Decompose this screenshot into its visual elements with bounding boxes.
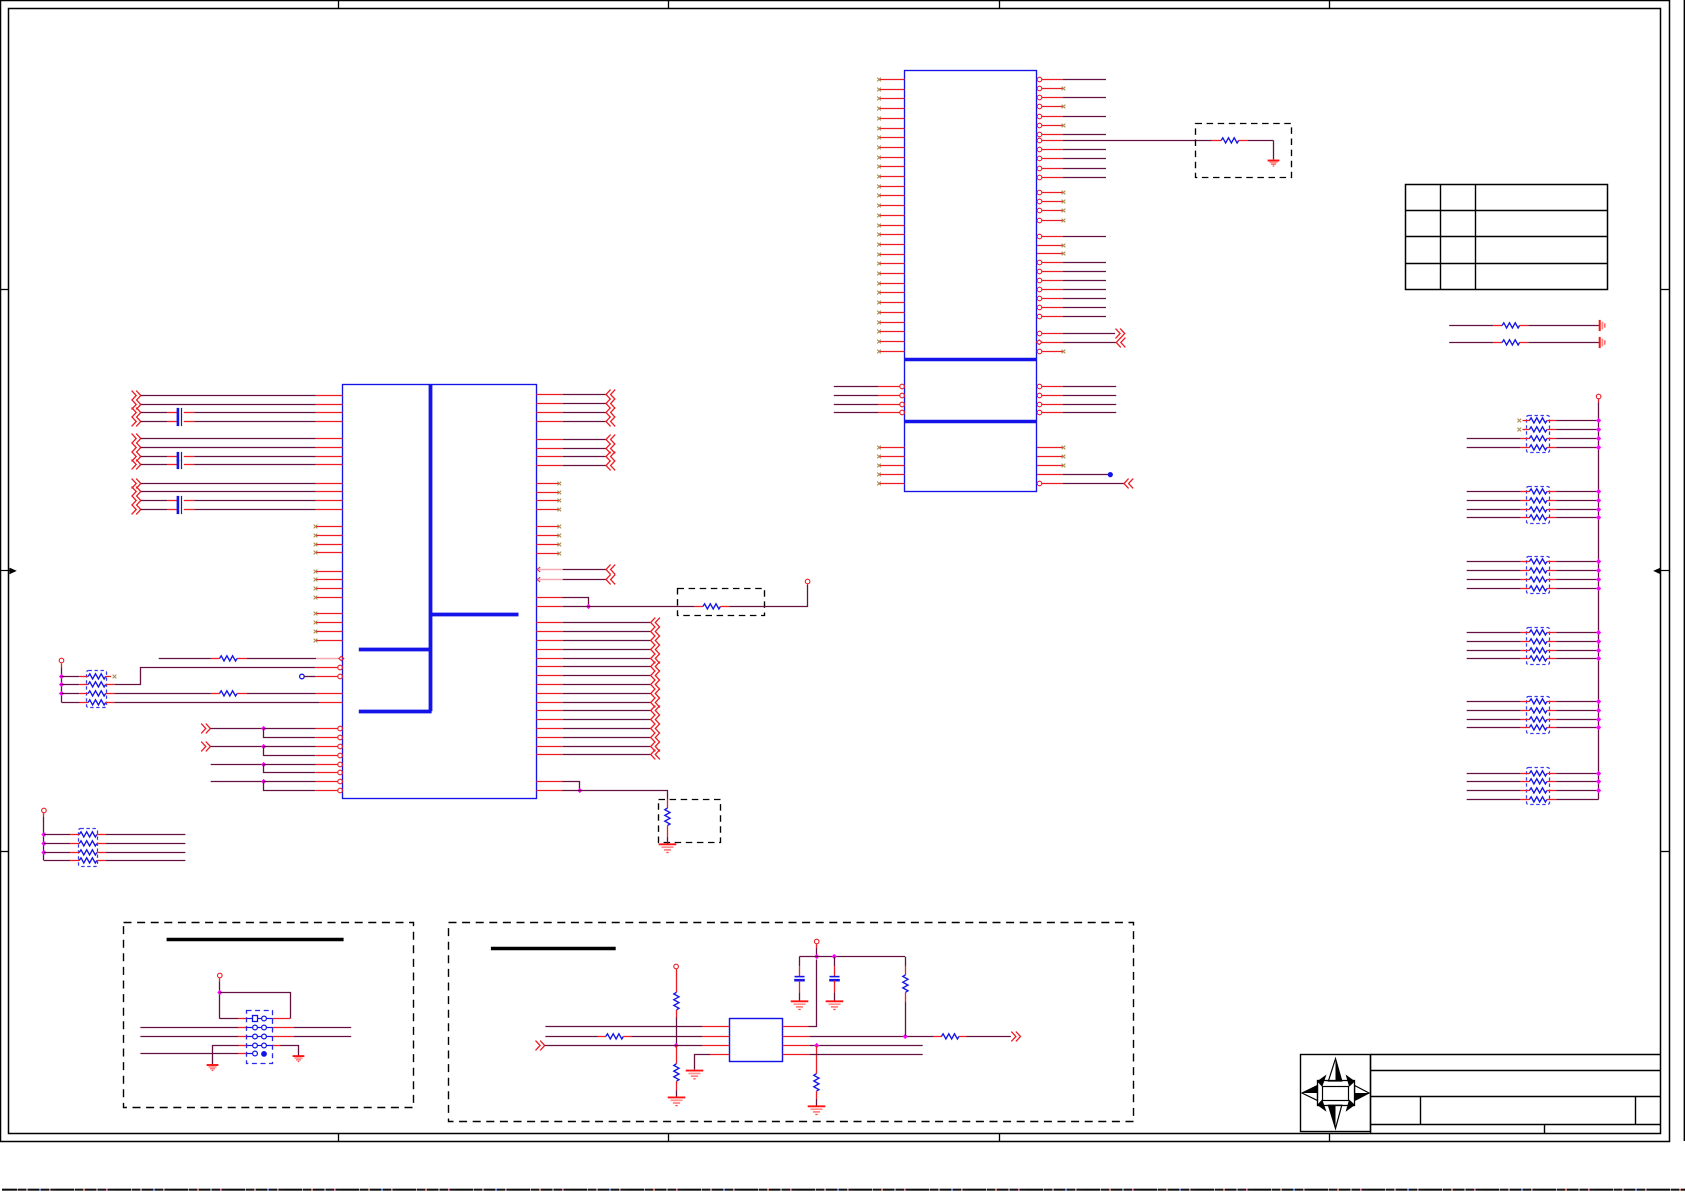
U2 right pin xyxy=(536,719,562,721)
RN2 resistor 2 lead xyxy=(1521,500,1530,502)
U1 lower-left pin 4 no-connect xyxy=(877,473,904,477)
wire xyxy=(106,843,186,845)
RN5 resistor 4 lead xyxy=(1521,727,1530,729)
U2 left pin xyxy=(316,395,343,397)
off-page connector xyxy=(606,565,615,575)
wire off-page xyxy=(563,728,651,730)
wire xyxy=(730,585,808,607)
off-page connector xyxy=(606,399,615,409)
wire xyxy=(810,1036,934,1038)
U2 right pin xyxy=(536,737,562,739)
U1 left pin 22 no-connect xyxy=(877,282,904,286)
wire xyxy=(632,1036,703,1038)
junction xyxy=(674,1043,679,1048)
wire xyxy=(1467,658,1521,660)
junction xyxy=(41,850,46,855)
wire xyxy=(264,764,316,766)
U2 left pin no-connect xyxy=(314,596,343,600)
lead xyxy=(1547,641,1556,643)
ground xyxy=(686,1071,704,1079)
off-page connector xyxy=(606,444,615,454)
U2 left pin xyxy=(316,753,343,758)
wire xyxy=(294,1036,351,1038)
power node flag xyxy=(805,579,810,584)
wire xyxy=(44,834,70,836)
off-page connector xyxy=(606,452,615,462)
U2 left pin xyxy=(316,500,343,502)
wire xyxy=(1556,641,1598,643)
off-page connector xyxy=(606,390,615,400)
U1 left pin 7 no-connect xyxy=(877,136,904,140)
wire xyxy=(1063,395,1117,397)
resistor R5 xyxy=(211,656,247,661)
junction xyxy=(1596,507,1601,512)
wire to ground xyxy=(695,1055,711,1070)
U1 left pin 24 no-connect xyxy=(877,301,904,305)
wire xyxy=(140,1027,238,1029)
wire xyxy=(1556,500,1598,502)
no-connect xyxy=(113,675,117,679)
wire xyxy=(210,746,263,748)
wire off-page xyxy=(563,569,606,571)
wire xyxy=(1467,500,1521,502)
junction xyxy=(586,604,591,609)
wire xyxy=(1063,168,1106,170)
U3 pin lead xyxy=(702,1036,729,1038)
wire xyxy=(1556,579,1598,581)
RN3 resistor 4 lead xyxy=(1521,588,1530,590)
U1 left pin 3 no-connect xyxy=(877,97,904,101)
U1 left pin 17 no-connect xyxy=(877,233,904,237)
junction xyxy=(1596,656,1601,661)
U2 left pin no-connect xyxy=(314,587,343,591)
wire xyxy=(264,728,316,730)
resistor RN5.4 xyxy=(1529,725,1547,730)
wire xyxy=(194,412,316,414)
wire off-page xyxy=(563,394,606,396)
off-page connector xyxy=(132,443,141,453)
dashed enclosure J1 section xyxy=(124,923,414,1108)
logo compass star xyxy=(1302,1059,1369,1129)
J1 pin 7 xyxy=(246,1043,261,1048)
U1 right pin xyxy=(1037,175,1063,180)
wire xyxy=(1467,561,1521,563)
ground xyxy=(826,1001,844,1009)
wire xyxy=(1556,781,1598,783)
junction xyxy=(1596,577,1601,582)
U2 left pin no-connect xyxy=(314,570,343,574)
wire off-page xyxy=(563,658,651,660)
RN5 resistor 1 lead xyxy=(1521,701,1530,703)
wire xyxy=(799,957,801,966)
off-page connector xyxy=(651,654,660,664)
wire xyxy=(247,693,316,695)
lead xyxy=(1547,570,1556,572)
wire xyxy=(834,386,878,388)
J1 pin 2 xyxy=(262,1016,273,1021)
wire xyxy=(62,676,80,678)
U1 right pin no-connect xyxy=(1037,104,1065,109)
power node flag xyxy=(59,658,64,667)
off-page connector xyxy=(651,750,660,760)
wire xyxy=(1556,491,1598,493)
lead xyxy=(1547,588,1556,590)
U1 left pin 28 no-connect xyxy=(877,340,904,344)
wire xyxy=(1063,79,1106,81)
wire off-page xyxy=(563,675,651,677)
wire jog up xyxy=(115,668,316,685)
resistor network RN4 dashed outline xyxy=(1527,628,1550,665)
junction xyxy=(1596,630,1601,635)
wire off-page xyxy=(563,622,651,624)
junction xyxy=(1596,427,1601,432)
U1 lower-right pin 4 xyxy=(1037,474,1063,476)
lead xyxy=(816,1091,818,1099)
lead xyxy=(273,1036,294,1038)
wire xyxy=(1063,280,1106,282)
U1 middle-right pin 1 xyxy=(1037,384,1063,389)
U2 left pin xyxy=(316,438,343,440)
wire xyxy=(1556,658,1598,660)
U2 right pin xyxy=(536,403,562,405)
U1 right pin xyxy=(1037,95,1063,100)
wire off-page xyxy=(563,579,606,581)
U2 left pin xyxy=(316,762,343,767)
U2 left pin no-connect xyxy=(314,630,343,634)
wire xyxy=(264,746,316,748)
U2 right pin no-connect xyxy=(536,491,561,495)
RN2 resistor 4 lead xyxy=(1521,517,1530,519)
zone tick bottom 3 xyxy=(999,1133,1001,1141)
resistor R8 lead xyxy=(676,972,678,992)
U2 left pin xyxy=(316,665,343,670)
U1 right pin xyxy=(1037,260,1063,265)
U1 left pin 18 no-connect xyxy=(877,243,904,247)
wire off-page xyxy=(563,666,651,668)
lead xyxy=(905,992,907,1002)
capacitor C8 lead xyxy=(834,966,836,977)
U2 right pin arrow xyxy=(537,567,563,572)
U1 left pin 2 no-connect xyxy=(877,88,904,92)
off-page connector xyxy=(651,645,660,655)
wire branch xyxy=(264,782,316,791)
wire xyxy=(220,1018,238,1020)
wire xyxy=(141,491,316,493)
off-page connector xyxy=(651,706,660,716)
off-page connector xyxy=(132,417,141,427)
bus line horizontal B xyxy=(359,648,431,652)
lead xyxy=(1547,781,1556,783)
U1 right pin no-connect xyxy=(1037,252,1065,256)
wire xyxy=(247,658,316,660)
wire xyxy=(141,412,167,414)
U1 right pin xyxy=(1037,314,1063,319)
resistor RN8.3 xyxy=(70,850,106,855)
U1 middle-left pin 4 xyxy=(878,410,904,415)
J1 pin 3 xyxy=(246,1025,261,1030)
U1 middle-left pin 3 xyxy=(878,402,904,407)
zone tick right 1 xyxy=(1661,289,1670,291)
wire off-page xyxy=(563,448,606,450)
U1 right pin diamond xyxy=(1037,340,1064,345)
U1 right pin xyxy=(1037,296,1063,301)
off-page connector xyxy=(536,1041,545,1051)
U1 left pin 6 no-connect xyxy=(877,127,904,131)
resistor network RN6 dashed outline xyxy=(1527,768,1550,805)
U2 left pin no-connect xyxy=(314,534,343,538)
capacitor C3 xyxy=(167,452,194,461)
resistor R11 xyxy=(934,1034,967,1039)
wire xyxy=(1063,149,1106,151)
off-page connector xyxy=(651,724,660,734)
wire branch xyxy=(264,747,316,756)
U2 right pin xyxy=(536,421,562,423)
wire xyxy=(1556,517,1598,519)
U2 left pin xyxy=(319,702,343,704)
revision table xyxy=(1405,184,1607,289)
wire xyxy=(264,781,316,783)
U1 left pin 19 no-connect xyxy=(877,253,904,257)
RN1 resistor 1 no-connect side xyxy=(1517,419,1529,423)
ground xyxy=(207,1065,219,1070)
U2 left pin xyxy=(316,509,343,511)
U2 right pin no-connect xyxy=(536,482,561,486)
bus line horizontal C xyxy=(359,710,432,714)
wire xyxy=(1063,97,1106,99)
off-page connector xyxy=(132,479,141,489)
U2 left pin no-connect xyxy=(314,578,343,582)
off-page connector xyxy=(651,742,660,752)
wire xyxy=(1467,719,1521,721)
resistor RN2.3 xyxy=(1529,507,1547,512)
resistor R12 xyxy=(814,1074,819,1092)
resistor RN1.1 xyxy=(1529,418,1547,423)
junction xyxy=(1596,779,1601,784)
junction xyxy=(1596,648,1601,653)
U2 right pin xyxy=(536,649,562,651)
wire xyxy=(1467,438,1521,440)
U1 left pin 21 no-connect xyxy=(877,272,904,276)
wire off-page xyxy=(1063,333,1115,335)
wire off-page xyxy=(563,746,651,748)
resistor R4 xyxy=(211,691,247,696)
lead xyxy=(834,981,836,993)
wire xyxy=(1063,289,1106,291)
U2 left pin xyxy=(316,447,343,449)
off-page connector xyxy=(606,461,615,471)
resistor RN6.4 xyxy=(1529,797,1547,802)
resistor RN3.2 xyxy=(1529,568,1547,573)
off-page connector xyxy=(606,575,615,585)
wire off-page xyxy=(563,465,606,467)
U2 left pin no-connect xyxy=(314,543,343,547)
lead xyxy=(799,981,801,993)
resistor R2 xyxy=(1493,323,1528,328)
wire xyxy=(1528,342,1599,344)
U2 right pin xyxy=(536,728,562,730)
wire xyxy=(1467,579,1521,581)
wire off-page xyxy=(563,631,651,633)
U1 middle-right pin 4 xyxy=(1037,410,1063,415)
wire xyxy=(1467,701,1521,703)
wire xyxy=(141,438,316,440)
wire xyxy=(141,404,316,406)
IC U2 body xyxy=(343,385,537,799)
U3 pin lead xyxy=(702,1045,729,1047)
wire xyxy=(905,1002,907,1036)
RN3 resistor 3 lead xyxy=(1521,579,1530,581)
U1 right pin xyxy=(1037,114,1063,119)
wire xyxy=(1063,307,1106,309)
junction xyxy=(261,726,266,731)
wire xyxy=(141,483,316,485)
wire xyxy=(141,509,167,511)
junction xyxy=(1596,436,1601,441)
U1 lower-left pin 1 no-connect xyxy=(877,446,904,450)
junction xyxy=(1596,708,1601,713)
lead xyxy=(273,1027,294,1029)
lead xyxy=(1547,632,1556,634)
off-page connector xyxy=(606,417,615,427)
U2 right pin xyxy=(536,754,562,756)
capacitor C5 xyxy=(167,496,194,505)
U1 middle-right pin 2 xyxy=(1037,393,1063,398)
lead xyxy=(1547,719,1556,721)
U1 left pin 4 no-connect xyxy=(877,107,904,111)
resistor RN8.4 xyxy=(70,858,106,863)
wire off-page xyxy=(563,640,651,642)
wire xyxy=(676,1018,678,1046)
U1 left pin 26 no-connect xyxy=(877,321,904,325)
wire xyxy=(545,1045,703,1047)
U2 right pin xyxy=(536,684,562,686)
U2 right pin xyxy=(536,710,562,712)
U1 right pin no-connect xyxy=(1037,86,1065,91)
wire xyxy=(141,456,167,458)
U1 left pin 9 no-connect xyxy=(877,156,904,160)
U1 left pin 13 no-connect xyxy=(877,194,904,198)
wire xyxy=(905,957,907,966)
zone tick right 2 xyxy=(1661,851,1670,853)
wire xyxy=(1467,570,1521,572)
section title bar xyxy=(491,947,616,950)
lead xyxy=(1547,500,1556,502)
junction xyxy=(59,682,64,687)
U2 right pin arrow xyxy=(537,577,563,582)
wire xyxy=(1467,727,1521,729)
J1 pin 5 xyxy=(246,1034,261,1039)
U2 left pin xyxy=(316,456,343,458)
wire xyxy=(44,852,70,854)
zone tick left 2 xyxy=(1,851,9,853)
wire off-page xyxy=(563,737,651,739)
zone tick bottom 4 xyxy=(1329,1133,1331,1141)
wire off-page xyxy=(563,456,606,458)
off-page connector xyxy=(132,487,141,497)
junction xyxy=(814,954,819,959)
junction xyxy=(261,744,266,749)
wire xyxy=(810,1045,923,1047)
wire xyxy=(1467,773,1521,775)
wire xyxy=(1556,650,1598,652)
dashed enclosure R7 xyxy=(659,800,721,843)
capacitor C4 xyxy=(167,460,194,469)
wire xyxy=(1556,420,1598,422)
lead xyxy=(238,1045,246,1047)
wire off-page xyxy=(967,1036,1011,1038)
section title bar xyxy=(167,938,344,941)
junction xyxy=(1596,445,1601,450)
wire xyxy=(1556,429,1598,431)
junction xyxy=(814,1043,819,1048)
U2 right pin xyxy=(536,658,562,660)
RN3 resistor 1 lead xyxy=(1521,561,1530,563)
U2 right pin xyxy=(536,666,562,668)
U1 right pin xyxy=(1037,156,1063,161)
U1 right pin xyxy=(1037,287,1063,292)
junction xyxy=(832,954,837,959)
wire xyxy=(1467,447,1521,449)
wire xyxy=(1556,790,1598,792)
off-page connector xyxy=(651,698,660,708)
U2 right pin xyxy=(536,790,563,792)
off-page connector xyxy=(606,408,615,418)
U1 right pin xyxy=(1037,234,1063,239)
U1 left pin 27 no-connect xyxy=(877,330,904,334)
bus line horizontal A xyxy=(430,613,518,617)
capacitor C1 xyxy=(167,408,194,417)
U1 left pin 15 no-connect xyxy=(877,214,904,218)
off-page connector xyxy=(651,689,660,699)
wire off-page xyxy=(1063,342,1116,344)
U1 right pin xyxy=(1037,132,1063,137)
power symbol xyxy=(1600,337,1605,348)
lead xyxy=(1547,658,1556,660)
wire xyxy=(1248,140,1274,159)
U2 left pin xyxy=(316,735,343,740)
U3 pin lead xyxy=(783,1054,810,1056)
capacitor C6 xyxy=(167,505,194,514)
wire xyxy=(159,658,211,660)
wire xyxy=(141,500,167,502)
lead xyxy=(1547,650,1556,652)
wire xyxy=(1467,650,1521,652)
wire xyxy=(1449,342,1493,344)
wire xyxy=(1467,588,1521,590)
node stub xyxy=(300,674,316,679)
U2 left pin xyxy=(316,464,343,466)
junction xyxy=(1596,771,1601,776)
U1 right pin no-connect xyxy=(1037,190,1065,195)
resistor RN1.4 xyxy=(1529,445,1547,450)
U1 left pin 8 no-connect xyxy=(877,146,904,150)
off-page connector xyxy=(201,724,210,734)
wire off-page xyxy=(1063,483,1124,485)
header J1 dashed outline xyxy=(247,1011,273,1064)
RN1 resistor 4 lead xyxy=(1521,447,1530,449)
off-page connector xyxy=(1011,1032,1020,1042)
lead xyxy=(1547,701,1556,703)
wire to ground xyxy=(281,1046,299,1056)
power node flag xyxy=(218,973,223,981)
RN6 resistor 4 lead xyxy=(1521,799,1530,801)
J1 pin 8 xyxy=(262,1043,273,1048)
wire branch xyxy=(264,729,316,738)
wire xyxy=(1467,641,1521,643)
wire xyxy=(1528,325,1599,327)
off-page connector xyxy=(651,627,660,637)
resistor R6 xyxy=(695,604,730,609)
